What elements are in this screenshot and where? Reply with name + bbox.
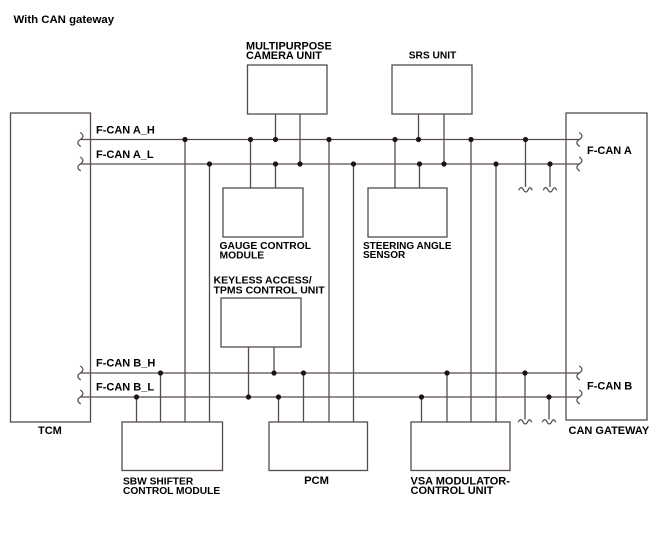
wire F-CAN A_L bus line (81, 163, 580, 165)
svg-text:CAMERA UNIT: CAMERA UNIT (246, 50, 322, 62)
junction SRS wire on F-CAN A_H (416, 137, 421, 142)
junction stub on F-CAN A_H (523, 137, 528, 142)
break symbol F-CAN A_H left end (78, 133, 83, 147)
label GAUGE CONTROL MODULE (220, 241, 312, 262)
svg-text:F-CAN A_H: F-CAN A_H (96, 125, 155, 137)
break symbol on B_L stub (542, 420, 555, 424)
svg-text:SRS UNIT: SRS UNIT (409, 51, 457, 62)
junction SBW wire on F-CAN B_H (158, 370, 163, 375)
junction VSA wire on F-CAN A_L (493, 161, 498, 166)
svg-text:F-CAN A: F-CAN A (587, 145, 632, 157)
label VSA MODULATOR-CONTROL UNIT (411, 475, 511, 497)
wire VSA MODULATOR to F-CAN A_H (470, 140, 472, 423)
label SBW SHIFTER CONTROL MODULE (123, 476, 220, 497)
label F-CAN B_L (96, 382, 154, 394)
wire PCM to F-CAN A_H (328, 140, 330, 423)
wire KEYLESS ACCESS to F-CAN B_L (248, 347, 250, 397)
junction VSA wire on F-CAN B_L (419, 394, 424, 399)
junction stub on F-CAN B_H (522, 370, 527, 375)
label TCM (38, 425, 62, 437)
junction PCM wire on F-CAN B_L (276, 394, 281, 399)
junction KEYLESS wire on F-CAN B_L (246, 394, 251, 399)
label F-CAN B (inside CAN GATEWAY) (587, 381, 632, 393)
wire SBW SHIFTER to F-CAN B_L (136, 397, 138, 422)
svg-text:CONTROL UNIT: CONTROL UNIT (411, 485, 494, 497)
stub wire from F-CAN A_H near gateway (525, 140, 527, 188)
ECU box MULTIPURPOSE CAMERA UNIT (248, 65, 328, 114)
svg-text:F-CAN B_H: F-CAN B_H (96, 358, 155, 370)
break symbol on B_H stub (518, 420, 531, 424)
wire GAUGE CONTROL to F-CAN A_H (250, 140, 252, 189)
wire SBW SHIFTER to F-CAN A_L (209, 164, 211, 422)
svg-text:F-CAN B_L: F-CAN B_L (96, 382, 154, 394)
svg-text:CAN GATEWAY: CAN GATEWAY (569, 425, 650, 437)
junction CAMERA wire on F-CAN A_H (273, 137, 278, 142)
break symbol on A_L stub (543, 188, 556, 192)
title label: With CAN gateway (14, 14, 115, 26)
wire SBW SHIFTER to F-CAN B_H (160, 373, 162, 422)
break symbol F-CAN A_H right end (577, 133, 582, 147)
ECU box VSA MODULATOR-CONTROL UNIT (411, 422, 510, 471)
wire GAUGE CONTROL to F-CAN A_L (275, 164, 277, 188)
wire PCM to F-CAN A_L (353, 164, 355, 422)
ECU box PCM (269, 422, 368, 471)
ECU box SBW SHIFTER CONTROL MODULE (122, 422, 223, 471)
junction STEERING wire on F-CAN A_H (392, 137, 397, 142)
junction GAUGE wire on F-CAN A_H (248, 137, 253, 142)
svg-text:With CAN gateway: With CAN gateway (14, 14, 115, 26)
label MULTIPURPOSE CAMERA UNIT (246, 41, 332, 62)
break symbol F-CAN B_H left end (78, 366, 83, 380)
wire CAMERA UNIT to F-CAN A_L (299, 114, 301, 164)
junction STEERING wire on F-CAN A_L (417, 161, 422, 166)
stub wire from F-CAN B_L near gateway (548, 397, 550, 420)
break symbol F-CAN B_H right end (577, 366, 582, 380)
junction CAMERA wire on F-CAN A_L (297, 161, 302, 166)
junction KEYLESS wire on F-CAN B_H (271, 370, 276, 375)
wire STEERING SENSOR to F-CAN A_L (419, 164, 421, 188)
svg-text:PCM: PCM (304, 475, 329, 487)
wire F-CAN B_H bus line (81, 372, 580, 374)
wire PCM to F-CAN B_H (303, 373, 305, 422)
ECU box CAN GATEWAY (566, 113, 647, 420)
wire VSA MODULATOR to F-CAN A_L (495, 164, 497, 422)
wire KEYLESS ACCESS to F-CAN B_H (273, 347, 275, 373)
stub wire from F-CAN B_H near gateway (524, 373, 526, 420)
break symbol F-CAN A_L right end (577, 157, 582, 171)
label KEYLESS ACCESS/TPMS CONTROL UNIT (214, 275, 326, 297)
junction PCM wire on F-CAN A_H (326, 137, 331, 142)
svg-text:TCM: TCM (38, 425, 62, 437)
stub wire from F-CAN A_L near gateway (549, 164, 551, 187)
label CAN GATEWAY (569, 425, 650, 437)
junction PCM wire on F-CAN A_L (351, 161, 356, 166)
break symbol F-CAN B_L right end (577, 390, 582, 404)
wire SRS UNIT to F-CAN A_L (443, 114, 445, 164)
label F-CAN A_H (96, 125, 155, 137)
wire SRS UNIT to F-CAN A_H (418, 114, 420, 140)
label SRS UNIT (409, 51, 457, 62)
junction SBW wire on F-CAN A_H (182, 137, 187, 142)
svg-text:F-CAN A_L: F-CAN A_L (96, 149, 154, 161)
ECU box STEERING ANGLE SENSOR (368, 188, 447, 237)
wire VSA MODULATOR to F-CAN B_H (446, 373, 448, 422)
ECU box TCM (11, 113, 91, 422)
junction VSA wire on F-CAN B_H (444, 370, 449, 375)
label STEERING ANGLE SENSOR (363, 241, 452, 261)
break symbol F-CAN A_L left end (78, 157, 83, 171)
svg-text:CONTROL MODULE: CONTROL MODULE (123, 486, 220, 497)
svg-text:SENSOR: SENSOR (363, 250, 406, 261)
wire F-CAN B_L bus line (81, 396, 580, 398)
break symbol F-CAN B_L left end (78, 390, 83, 404)
ECU box GAUGE CONTROL MODULE (223, 188, 303, 237)
wire PCM to F-CAN B_L (278, 397, 280, 422)
ECU box SRS UNIT (392, 65, 472, 114)
wire STEERING SENSOR to F-CAN A_H (394, 140, 396, 189)
wire VSA MODULATOR to F-CAN B_L (421, 397, 423, 422)
svg-text:TPMS CONTROL UNIT: TPMS CONTROL UNIT (214, 285, 326, 297)
label F-CAN A_L (96, 149, 154, 161)
svg-text:F-CAN B: F-CAN B (587, 381, 632, 393)
junction VSA wire on F-CAN A_H (468, 137, 473, 142)
label F-CAN B_H (96, 358, 155, 370)
label PCM (304, 475, 329, 487)
wire SBW SHIFTER to F-CAN A_H (184, 140, 186, 423)
junction SBW wire on F-CAN B_L (134, 394, 139, 399)
break symbol on A_H stub (519, 188, 532, 192)
svg-text:MODULE: MODULE (220, 250, 265, 261)
junction stub on F-CAN A_L (547, 161, 552, 166)
junction GAUGE wire on F-CAN A_L (273, 161, 278, 166)
junction SBW wire on F-CAN A_L (207, 161, 212, 166)
label F-CAN A (inside CAN GATEWAY) (587, 145, 632, 157)
junction PCM wire on F-CAN B_H (301, 370, 306, 375)
wire CAMERA UNIT to F-CAN A_H (275, 114, 277, 140)
junction SRS wire on F-CAN A_L (441, 161, 446, 166)
junction stub on F-CAN B_L (546, 394, 551, 399)
ECU box KEYLESS ACCESS/TPMS CONTROL UNIT (221, 298, 301, 347)
wire F-CAN A_H bus line (81, 139, 580, 141)
